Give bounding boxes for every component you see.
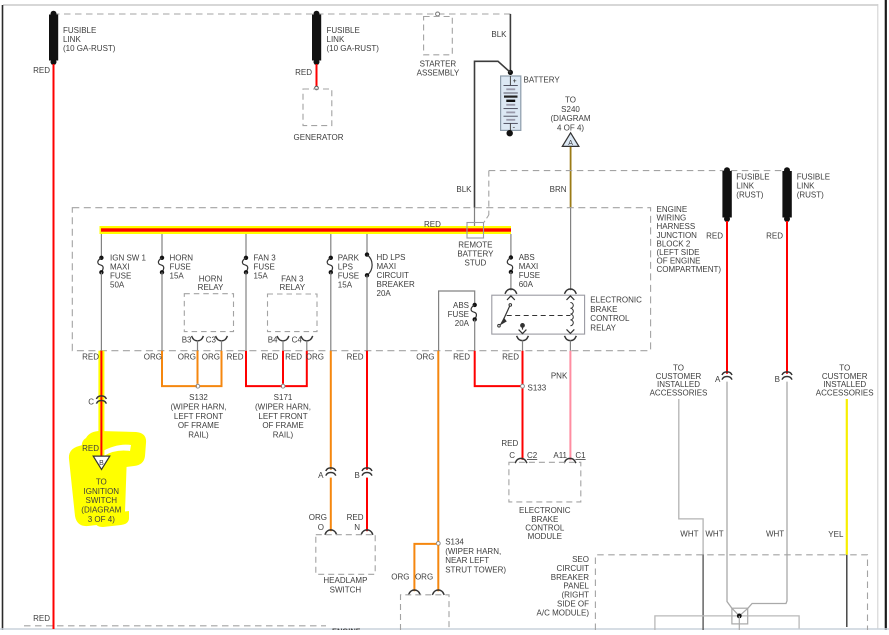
wire (gray) IGN fuse to block edge [100,272,102,350]
svg-text:C3: C3 [206,335,217,344]
svg-text:MAXI: MAXI [519,262,539,271]
connector C (in-line) [96,396,106,404]
svg-text:ORG: ORG [144,352,162,361]
pin B3 (horn relay) [192,336,204,341]
wire (gray) ABS fuse to block edge [474,319,476,350]
wire RED B4 out [282,351,284,384]
svg-text:S133: S133 [528,383,547,392]
svg-text:FAN 3: FAN 3 [254,254,277,263]
label ENGINE WIRING HARNESS JUNCTION BLOCK 2 [657,205,722,274]
svg-text:B3: B3 [182,335,192,344]
relay output pin (middle) [521,324,525,328]
generator box [303,89,332,126]
svg-text:C: C [509,451,515,460]
connector A (customer accessories) [722,372,732,380]
label SEO CIRCUIT BREAKER PANEL [537,555,590,617]
svg-text:LINK: LINK [63,35,81,44]
wire (gray) HORN fuse to block edge [161,272,163,350]
svg-text:SIDE OF: SIDE OF [557,600,589,609]
fuse PARK LPS FUSE 15A [327,256,333,275]
svg-text:FUSE: FUSE [448,310,469,319]
svg-text:NEAR LEFT: NEAR LEFT [445,556,489,565]
svg-text:RED: RED [347,352,364,361]
connector A (in-line, headlamp feed) [326,468,336,476]
svg-text:S134: S134 [445,537,464,546]
svg-text:50A: 50A [110,281,125,290]
svg-text:ORG: ORG [306,352,324,361]
wire (dark) stepped continuation inside SEO panel [702,554,704,630]
svg-text:GENERATOR: GENERATOR [294,133,344,142]
svg-text:-: - [513,122,516,131]
svg-text:BREAKER: BREAKER [551,573,589,582]
svg-text:+: + [513,78,517,85]
pin arc (relay coil, bottom) [564,336,576,341]
svg-text:STUD: STUD [465,259,487,268]
wire (gray) bus to HORN fuse [161,234,163,258]
pin B4 (fan3 relay) [277,336,289,341]
battery B1 [501,76,521,136]
circuit breaker HD LPS MAXI 20A [365,252,372,277]
wire BRN from S240 triangle [570,147,572,208]
svg-text:PNK: PNK [551,372,568,381]
svg-text:RED: RED [285,352,302,361]
relay FAN 3 RELAY (dashed box) [268,294,318,332]
relay coil [567,296,575,300]
svg-text:RED: RED [501,439,518,448]
wire (gray) bus end to ABS MAXI fuse [510,234,512,258]
wire (gray) bus to HD LPS breaker [366,234,368,255]
svg-text:MAXI: MAXI [377,262,397,271]
svg-text:3 OF 4): 3 OF 4) [88,515,115,524]
svg-text:ORG: ORG [202,352,220,361]
svg-text:(RUST): (RUST) [797,191,824,200]
EBCM box [509,462,581,502]
svg-text:S132: S132 [189,393,208,402]
svg-text:15A: 15A [338,281,353,290]
wire ORG park-lps to headlamp switch [330,351,332,470]
svg-text:C4: C4 [292,335,303,344]
svg-text:ENGINE: ENGINE [332,627,361,631]
svg-text:(RUST): (RUST) [736,191,763,200]
svg-text:RELAY: RELAY [198,283,224,292]
svg-text:FUSIBLE: FUSIBLE [797,173,830,182]
relay ELECTRONIC BRAKE CONTROL RELAY (box) [492,295,585,334]
svg-text:ABS: ABS [453,301,469,310]
fuse ABS MAXI FUSE 60A [507,255,513,274]
fuse HORN FUSE 15A [158,256,164,275]
svg-text:BRN: BRN [550,185,567,194]
wire (gray) bus to IGN SW1 fuse [100,234,102,258]
internal SEO wiring (light) [655,616,799,630]
svg-text:RED: RED [227,352,244,361]
svg-text:(DIAGRAM: (DIAGRAM [551,114,591,123]
wire ORG S134 down [437,545,439,591]
svg-text:BRAKE: BRAKE [590,305,617,314]
svg-text:TO: TO [565,96,576,105]
RIGHT-SIDE [537,167,874,630]
svg-text:WHT: WHT [705,530,723,539]
wire (gray) FAN3 fuse to block edge [245,272,247,350]
svg-text:OF FRAME: OF FRAME [178,421,219,430]
svg-text:C1: C1 [575,451,586,460]
svg-text:B: B [775,375,780,384]
svg-text:A/C MODULE): A/C MODULE) [537,608,590,617]
bottom dashed line (cropped box) [24,625,326,627]
wire ORG B3 out [197,351,199,384]
svg-text:HORN: HORN [199,275,223,284]
svg-text:C: C [88,398,94,407]
svg-text:HD LPS: HD LPS [377,253,406,262]
svg-text:LINK: LINK [797,182,815,191]
svg-text:LINK: LINK [736,182,754,191]
svg-text:20A: 20A [455,319,470,328]
svg-text:15A: 15A [170,272,185,281]
svg-text:ELECTRONIC: ELECTRONIC [590,296,642,305]
BRANCHES [98,234,642,351]
svg-text:RED: RED [706,231,723,240]
clipped label (bottom) [332,627,361,635]
wire ORG horn-fuse out [162,351,197,386]
wire (gray) bus to FAN3 fuse [245,234,247,258]
wire (gray) HD LPS to block edge [366,275,368,350]
svg-text:ORG: ORG [391,573,409,582]
wire ORG S134 branch left [414,544,436,591]
dashed box (bottom, cropped) [401,595,450,630]
svg-text:4 OF 4): 4 OF 4) [557,123,584,132]
svg-text:O: O [318,523,324,532]
wire WHT (connector A down) [727,382,732,609]
svg-text:RELAY: RELAY [590,323,616,332]
JUNCTION-BLOCK [72,205,721,351]
pin arcs (bottom dashed box) [408,590,420,595]
dashed feed line (top) [53,13,511,15]
svg-text:S171: S171 [274,393,293,402]
wire RED abs-fuse out to S133 [475,351,521,386]
svg-text:STRUT TOWER): STRUT TOWER) [445,566,506,575]
svg-text:(10 GA-RUST): (10 GA-RUST) [327,44,380,53]
svg-text:(DIAGRAM: (DIAGRAM [81,506,121,515]
svg-text:FUSE: FUSE [170,263,191,272]
wire BLK battery to remote stud (upper part) [475,61,511,207]
svg-text:FUSE: FUSE [338,272,359,281]
svg-text:WHT: WHT [680,530,698,539]
wire (gray) ABS fuse feed branch [439,291,475,351]
svg-text:FUSIBLE: FUSIBLE [63,26,96,35]
svg-text:FUSIBLE: FUSIBLE [736,173,769,182]
svg-text:B4: B4 [268,335,278,344]
svg-text:A: A [568,140,573,147]
svg-text:ORG: ORG [416,352,434,361]
off-page triangle B (to ignition switch) [93,456,110,469]
svg-text:LINK: LINK [327,35,345,44]
svg-text:A: A [715,375,721,384]
pin C4 (fan3 relay) [301,336,313,341]
relay actuation dashed line [507,315,571,317]
wire ORG C3 out [200,351,222,386]
svg-text:WHT: WHT [766,530,784,539]
svg-text:BREAKER: BREAKER [377,280,415,289]
SEO panel dashed box (cropped) [595,555,867,630]
svg-text:N: N [354,523,360,532]
splice S171 [281,384,285,388]
svg-text:RAIL): RAIL) [273,431,294,440]
wire RED C4 out [285,351,307,386]
svg-text:FUSE: FUSE [254,263,275,272]
svg-text:IGN SW 1: IGN SW 1 [110,254,147,263]
svg-text:ORG: ORG [178,352,196,361]
pin O (headlamp switch) [325,530,337,535]
svg-text:FAN 3: FAN 3 [281,275,304,284]
wire RED FL2 to generator [316,64,318,87]
svg-text:RED: RED [261,352,278,361]
svg-text:SEO: SEO [572,555,589,564]
svg-text:ORG: ORG [309,513,327,522]
svg-text:RED: RED [33,66,50,75]
svg-text:RED: RED [502,352,519,361]
pin A11 / C1 (EBCM) [564,458,576,463]
svg-text:CIRCUIT: CIRCUIT [377,271,410,280]
fusible link FL4 (RUST) [782,167,791,222]
pin arc (relay input, top) [505,289,517,294]
svg-text:20A: 20A [377,289,392,298]
wire gray BRN continuation inside junction block [570,208,572,291]
svg-text:ASSEMBLY: ASSEMBLY [417,69,460,78]
svg-text:C2: C2 [527,451,538,460]
svg-text:IGNITION: IGNITION [84,487,120,496]
svg-text:BLK: BLK [491,30,507,39]
relay HORN RELAY (dashed box) [184,294,233,332]
wire RED FL4 to connector B [786,221,788,374]
svg-text:B: B [354,471,359,480]
wire RED fan3-fuse out [246,351,282,386]
junction dot [737,614,742,619]
svg-text:CONTROL: CONTROL [590,314,630,323]
svg-text:FUSIBLE: FUSIBLE [327,26,360,35]
BELOW-JUNCTION [24,351,586,635]
wire WHT (connector B down) [748,382,787,609]
splice S133 [521,384,525,388]
svg-text:RED: RED [766,231,783,240]
wire (gray) relay output stub [522,340,524,350]
svg-text:RED: RED [33,614,50,623]
relay switch arm [509,304,512,307]
pin C / C2 (EBCM) [515,458,527,463]
wire BLK battery positive feed [509,14,511,72]
svg-text:BATTERY: BATTERY [524,76,561,85]
wire RED FL3 to connector A [726,221,728,374]
svg-text:YEL: YEL [828,530,844,539]
wire (dark) YEL continuation inside SEO panel [846,555,848,627]
svg-text:ACCESSORIES: ACCESSORIES [650,388,708,397]
svg-text:RELAY: RELAY [279,283,305,292]
svg-text:PARK: PARK [338,254,360,263]
svg-text:HEADLAMP: HEADLAMP [323,576,367,585]
fuse IGN SW 1 MAXI FUSE 50A [98,256,104,275]
svg-text:COMPARTMENT): COMPARTMENT) [657,265,722,274]
svg-text:B: B [99,460,104,467]
pin arc (relay output, bottom) [517,336,529,341]
svg-text:TO: TO [96,477,107,486]
starter assembly box [436,12,440,16]
svg-text:RED: RED [82,444,99,453]
svg-text:(10 GA-RUST): (10 GA-RUST) [63,44,116,53]
svg-text:SWITCH: SWITCH [330,585,362,594]
svg-text:STARTER: STARTER [420,60,457,69]
svg-text:BLK: BLK [456,185,472,194]
junction block dashed box [72,208,650,351]
wire RED hd-lps to headlamp switch [366,351,368,470]
connector B (in-line, headlamp feed) [362,468,372,476]
svg-text:ORG: ORG [415,573,433,582]
svg-text:CIRCUIT: CIRCUIT [557,564,590,573]
fusible link FL2 (10 GA-RUST) [312,11,321,65]
headlamp switch box [316,535,375,575]
svg-text:15A: 15A [254,272,269,281]
svg-text:LEFT FRONT: LEFT FRONT [174,412,223,421]
svg-text:RED: RED [295,68,312,77]
wire (gray) relay coil stub [569,340,571,350]
fuse ABS FUSE 20A [471,303,477,322]
svg-text:(WIPER HARN,: (WIPER HARN, [445,547,501,556]
svg-text:SWITCH: SWITCH [86,496,118,505]
remote battery stud box [467,223,484,239]
svg-text:RAIL): RAIL) [188,431,209,440]
svg-text:ACCESSORIES: ACCESSORIES [816,388,874,397]
svg-text:LPS: LPS [338,263,353,272]
splice S132 [196,384,200,388]
wire (gray) bus to PARK LPS fuse [330,234,332,258]
pin arc (relay coil, top) [564,289,576,294]
fusible link FL3 (RUST) [722,167,731,222]
svg-text:RED: RED [82,352,99,361]
wire (gray) PARK fuse to block edge [330,272,332,350]
pin C3 (horn relay) [216,336,228,341]
svg-text:A11: A11 [553,451,567,460]
wire RED relay output to EBCM [522,351,524,460]
svg-text:RED: RED [453,352,470,361]
svg-text:S240: S240 [561,105,580,114]
svg-text:REMOTE: REMOTE [458,241,492,250]
wire PNK relay coil to EBCM [569,351,571,461]
svg-text:FUSE: FUSE [519,271,540,280]
svg-text:60A: 60A [519,280,534,289]
wire RED from FL1 down left side [53,64,55,629]
off-page triangle A (S240) [562,133,579,147]
svg-text:MODULE: MODULE [528,532,562,541]
svg-text:RED: RED [347,513,364,522]
svg-text:(WIPER HARN,: (WIPER HARN, [255,402,311,411]
wire YEL (right accessories) [846,399,848,555]
svg-text:FUSE: FUSE [110,272,131,281]
svg-text:RED: RED [424,220,441,229]
wire gray inside junction block to stud [474,208,476,230]
svg-text:ABS: ABS [519,253,535,262]
highlighted RED bus (yellow highlighter) [100,226,512,234]
svg-text:(RIGHT: (RIGHT [561,591,589,600]
wire (gray) ABS MAXI fuse to relay pin [510,272,512,291]
wire RED IGN (highlighted) below block [98,351,104,456]
relay contact chevron (input) [507,296,515,300]
connector B (customer accessories) [782,372,792,380]
svg-text:BATTERY: BATTERY [457,250,494,259]
fusible link FL1 (10 GA-RUST) [49,11,58,65]
junction funnel box [732,608,748,624]
svg-text:PANEL: PANEL [563,582,589,591]
yellow highlighter blob (ignition callout) [69,431,146,527]
wire ORG abs-feed to S134 [437,351,439,542]
wire WHT (stepped, from left accessories) [679,399,703,554]
wire below junction dot [738,616,740,630]
pin N (headlamp switch) [361,530,373,535]
fuse FAN 3 FUSE 15A [242,256,248,275]
dashed boundary (right power region) [489,170,783,172]
svg-text:A: A [318,471,324,480]
svg-text:HORN: HORN [170,254,194,263]
svg-text:(WIPER HARN,: (WIPER HARN, [171,402,227,411]
svg-text:MAXI: MAXI [110,263,130,272]
svg-text:OF FRAME: OF FRAME [262,421,303,430]
splice S134 [436,542,440,546]
svg-text:LEFT FRONT: LEFT FRONT [258,412,307,421]
